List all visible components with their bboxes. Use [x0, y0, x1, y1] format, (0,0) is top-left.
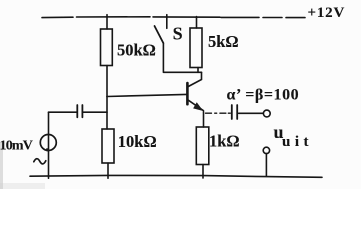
svg-text:10mV: 10mV — [0, 139, 33, 154]
svg-text:α’ =β=100: α’ =β=100 — [227, 86, 300, 103]
svg-text:1kΩ: 1kΩ — [209, 132, 240, 151]
svg-text:5kΩ: 5kΩ — [208, 32, 239, 51]
svg-text:uit: uit — [282, 134, 313, 150]
svg-text:10kΩ: 10kΩ — [118, 132, 157, 151]
svg-text:+12V: +12V — [308, 5, 346, 21]
svg-text:S: S — [173, 24, 183, 44]
svg-text:50kΩ: 50kΩ — [117, 41, 156, 60]
